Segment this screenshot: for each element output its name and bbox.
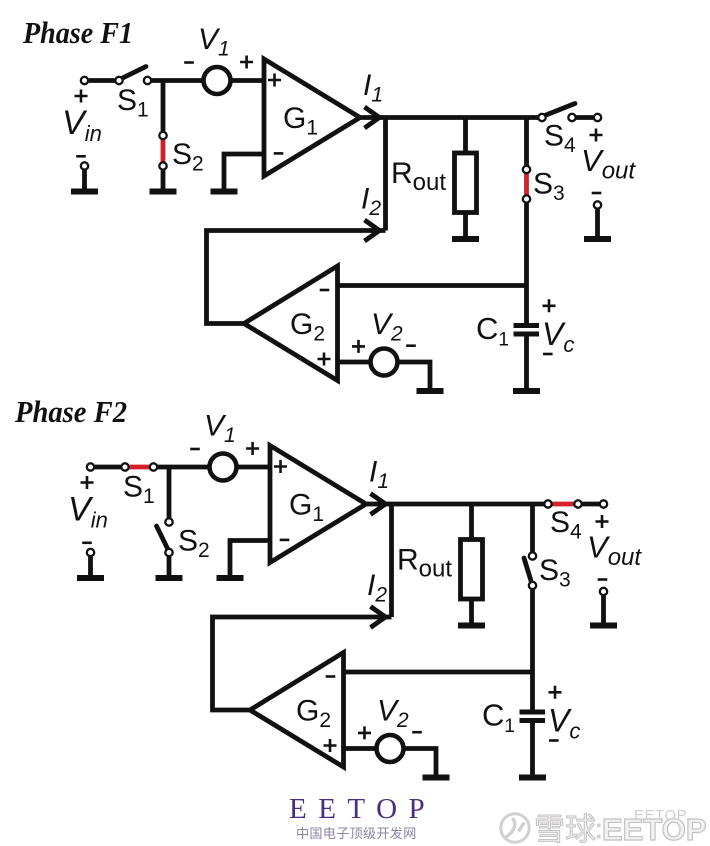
wire output node down to I2 <box>389 504 394 617</box>
svg-text:C1: C1 <box>482 698 515 738</box>
ground below S2 <box>156 575 183 581</box>
svg-text:Vout: Vout <box>587 530 642 572</box>
wire junction down to S2 <box>161 81 166 132</box>
svg-text:S2: S2 <box>172 138 204 176</box>
G1 - input sign <box>280 539 290 542</box>
op-amp G1 <box>264 59 360 176</box>
wire G2 inverting input to C1 node <box>338 283 527 288</box>
svg-text:S3: S3 <box>533 168 565 206</box>
label V2 - sign <box>406 344 416 347</box>
label Vc + sign <box>543 299 556 312</box>
G2 - input sign <box>326 675 336 678</box>
G2 - input sign <box>320 289 330 292</box>
svg-text:S3: S3 <box>539 554 571 592</box>
wire rail to Rout <box>469 504 474 542</box>
label V1 + sign <box>240 56 253 69</box>
wire S2 to ground <box>161 170 166 191</box>
capacitor C1 top plate <box>520 710 546 715</box>
label V2 + sign <box>352 340 365 353</box>
wire I2 from G2 output <box>207 231 386 324</box>
label Vout + sign <box>590 129 603 142</box>
G2 + input sign <box>324 739 337 752</box>
wire S1 to V1 <box>157 465 211 470</box>
svg-text:EETOP: EETOP <box>634 807 687 824</box>
ground below V2 <box>423 775 450 781</box>
label Vin + sign <box>75 90 88 103</box>
svg-text:Vin: Vin <box>62 104 102 146</box>
ground below Vout- <box>590 623 617 629</box>
ground below V2 <box>417 388 444 394</box>
label Vin - sign <box>76 155 86 158</box>
label Vout + sign <box>596 515 609 528</box>
voltage source V2 <box>371 349 398 376</box>
voltage source V2 <box>377 735 404 762</box>
wire V1 to G1 <box>230 78 267 83</box>
op-amp G2 <box>250 653 344 768</box>
label Vc - sign <box>543 353 553 356</box>
wire Vout- to ground <box>595 209 600 239</box>
wire S1 to V1 <box>151 78 205 83</box>
ground below G1 inverting input <box>211 189 238 195</box>
ground below Rout <box>458 623 485 629</box>
switch S3 (phase 1) <box>524 173 529 196</box>
wire S2 to ground <box>167 557 172 578</box>
svg-text:S1: S1 <box>123 471 155 509</box>
wire Rout to ground <box>463 213 468 240</box>
svg-text:S1: S1 <box>117 84 149 122</box>
label Vc + sign <box>549 686 562 699</box>
wire G2 + input to V2 <box>338 360 372 365</box>
switch S1 (phase 2) <box>130 465 156 470</box>
svg-text:V2: V2 <box>371 308 403 346</box>
node Vout- terminal <box>594 201 601 208</box>
label V1 - sign <box>184 61 194 64</box>
svg-text:I2: I2 <box>367 569 387 607</box>
wire S4 to Vout+ terminal <box>576 115 593 120</box>
G1 - input sign <box>274 152 284 155</box>
switch S4 (phase 1) <box>544 104 576 117</box>
ground below G1 inverting input <box>217 575 244 581</box>
wire C1 to ground <box>524 337 529 392</box>
svg-text:S4: S4 <box>550 506 582 544</box>
op-amp G2 <box>244 266 338 381</box>
node Vout+ terminal <box>594 114 601 121</box>
ground below Vin- <box>77 575 104 581</box>
capacitor C1 top plate <box>514 323 540 328</box>
svg-text:Vc: Vc <box>542 316 574 357</box>
svg-text:雪球: 雪球 <box>534 812 596 846</box>
switch S1 (phase 1) <box>121 67 147 80</box>
current arrow I1 <box>365 107 380 128</box>
current arrow I1 <box>371 494 386 515</box>
wire S4 to Vout+ terminal <box>582 502 599 507</box>
wire Vin+ to S1 left contact <box>95 465 121 470</box>
ground below C1 <box>519 775 546 781</box>
svg-text:S4: S4 <box>544 120 576 158</box>
node Vout+ terminal <box>600 500 607 507</box>
wire rail down to S3 <box>524 118 529 166</box>
svg-text:Vin: Vin <box>68 491 108 533</box>
capacitor C1 bottom plate <box>520 718 546 723</box>
node Vin+ terminal (phase 1) <box>81 77 88 84</box>
wire Vout- to ground <box>601 596 606 626</box>
node Vin- terminal <box>87 549 94 556</box>
wire V2 to ground <box>403 749 437 778</box>
svg-text:V1: V1 <box>204 410 236 448</box>
svg-text:V2: V2 <box>377 695 409 733</box>
ground below S2 <box>150 189 177 195</box>
label V1 - sign <box>190 448 200 451</box>
wire rail to Rout <box>463 118 468 156</box>
voltage source V1 <box>210 454 237 481</box>
label Vout - sign <box>598 578 608 581</box>
current arrow I2 <box>365 220 380 241</box>
watermark Xueqiu circle icon <box>501 814 529 842</box>
wire C1 to ground <box>530 723 535 778</box>
wire I2 from G2 output <box>213 617 392 710</box>
wire Vin- to ground <box>88 557 93 578</box>
label Vout - sign <box>592 192 602 195</box>
label V2 - sign <box>412 731 422 734</box>
label V1 + sign <box>246 442 259 455</box>
wire S3 down to C1 <box>524 203 529 323</box>
wire G1 inverting input to ground <box>230 541 270 579</box>
G2 + input sign <box>318 353 331 366</box>
wire V1 to G1 <box>236 465 273 470</box>
svg-text:Vc: Vc <box>548 703 580 744</box>
svg-text:Phase F1: Phase F1 <box>22 15 133 50</box>
G1 + input sign <box>268 74 281 87</box>
voltage source V1 <box>204 67 231 94</box>
wire G2 + input to V2 <box>344 746 378 751</box>
wire G1 inverting input to ground <box>224 154 264 192</box>
svg-text:Rout: Rout <box>397 544 452 583</box>
current arrow I2 <box>371 607 386 628</box>
resistor Rout <box>455 153 477 213</box>
label V2 + sign <box>358 726 371 739</box>
label Vc - sign <box>549 739 559 742</box>
switch S2 (phase 2) <box>157 526 169 550</box>
wire junction down to S2 <box>167 467 172 518</box>
svg-text:C1: C1 <box>476 311 509 351</box>
svg-text:I2: I2 <box>361 183 381 221</box>
wire S3 down to C1 <box>530 590 535 710</box>
wire Vin+ to S1 left contact <box>89 78 115 83</box>
wire output rail I1 <box>358 115 540 120</box>
resistor Rout <box>461 540 483 600</box>
svg-text:Phase F2: Phase F2 <box>14 394 127 429</box>
node Vin+ terminal (phase 2) <box>87 463 94 470</box>
svg-text:中国电子顶级开发网: 中国电子顶级开发网 <box>296 826 417 841</box>
switch S4 (phase 2) <box>553 502 583 507</box>
node Vin- terminal <box>81 162 88 169</box>
wire Rout to ground <box>469 599 474 626</box>
wire Vin- to ground <box>82 170 87 191</box>
node Vout- terminal <box>600 588 607 595</box>
ground below Rout <box>452 236 479 242</box>
wire rail down to S3 <box>530 504 535 552</box>
op-amp G1 <box>270 446 366 563</box>
svg-text:V1: V1 <box>198 23 230 61</box>
svg-text:I1: I1 <box>363 69 383 107</box>
label Vin + sign <box>81 476 94 489</box>
switch S2 (phase 1) <box>161 139 166 163</box>
svg-text:Vout: Vout <box>581 143 636 185</box>
label Vin - sign <box>82 541 92 544</box>
wire output node down to I2 <box>383 118 388 231</box>
ground below Vout- <box>584 236 611 242</box>
wire G2 inverting input to C1 node <box>344 670 533 675</box>
wire V2 to ground <box>397 362 431 391</box>
svg-text:Rout: Rout <box>391 157 446 196</box>
svg-text:EETOP: EETOP <box>289 793 436 825</box>
switch S3 (phase 2) <box>524 558 532 583</box>
ground below Vin- <box>71 189 98 195</box>
svg-text:I1: I1 <box>369 456 389 494</box>
G1 + input sign <box>274 460 287 473</box>
svg-text:S2: S2 <box>178 525 210 563</box>
ground below C1 <box>513 388 540 394</box>
wire output rail I1 <box>364 502 546 507</box>
capacitor C1 bottom plate <box>514 332 540 337</box>
